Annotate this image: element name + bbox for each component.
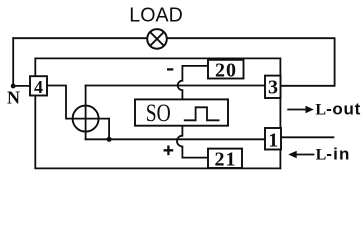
svg-text:20: 20 xyxy=(215,60,237,82)
svg-text:L-in: L-in xyxy=(316,145,351,164)
svg-text:21: 21 xyxy=(215,149,237,171)
svg-text:SO: SO xyxy=(146,100,171,127)
svg-text:3: 3 xyxy=(268,77,278,99)
svg-text:L-out: L-out xyxy=(315,100,361,119)
svg-text:N: N xyxy=(7,88,20,108)
svg-text:1: 1 xyxy=(268,129,278,151)
svg-text:LOAD: LOAD xyxy=(129,4,183,27)
svg-text:4: 4 xyxy=(34,77,43,97)
